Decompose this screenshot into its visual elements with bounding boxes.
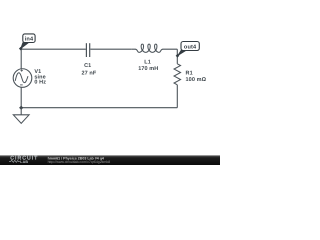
wire R1 bottom lead: [176, 85, 178, 108]
ground: [13, 108, 29, 124]
svg-text:out4: out4: [184, 44, 197, 50]
svg-text:in4: in4: [25, 35, 34, 42]
wire V1 bottom to ground junction: [20, 87, 22, 107]
label C1 value: [81, 63, 96, 76]
node in4: [19, 34, 35, 51]
svg-text:100 mΩ: 100 mΩ: [186, 77, 207, 83]
svg-text:170 mH: 170 mH: [138, 66, 158, 72]
svg-text:LAB: LAB: [20, 160, 28, 164]
svg-text:L1: L1: [144, 60, 151, 66]
node out4: [176, 42, 200, 58]
wire in4 junction down to V1 top: [20, 49, 22, 69]
svg-text:R1: R1: [186, 71, 193, 77]
svg-text:0 Hz: 0 Hz: [34, 79, 46, 85]
wire right vertical from top rail corner down to R1: [176, 49, 178, 64]
voltage source V1: [13, 69, 32, 88]
wire bottom rail: [21, 107, 177, 109]
svg-text:C1: C1: [84, 63, 91, 69]
label V1 value: [34, 69, 46, 85]
label L1 value: [138, 60, 158, 72]
resistor R1: [174, 64, 180, 85]
svg-text:http://www.circuitlab.com/c7qr: http://www.circuitlab.com/c7qr64g2kmb8: [48, 160, 111, 164]
node junction at ground: [19, 106, 23, 110]
wire C1 to L1: [90, 48, 131, 50]
svg-text:27 nF: 27 nF: [81, 70, 96, 76]
footer bar: [0, 155, 220, 165]
wire top rail from in4 junction to C1: [21, 48, 86, 50]
capacitor C1: [86, 43, 89, 57]
inductor L1: [131, 44, 177, 52]
footer logo resistor zigzag: [9, 160, 20, 162]
label R1 value: [186, 71, 207, 83]
